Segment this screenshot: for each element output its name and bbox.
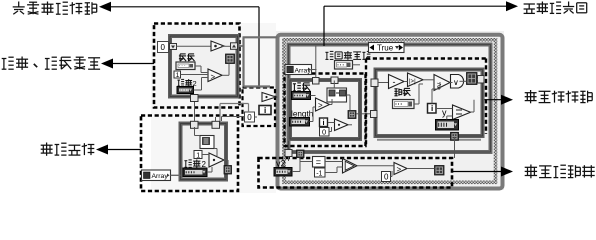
svg-text:0: 0 (247, 113, 252, 122)
svg-text:|>|: |>| (409, 79, 416, 85)
svg-text:1: 1 (176, 72, 180, 79)
svg-text:True: True (377, 44, 394, 53)
svg-text:=: = (316, 157, 321, 167)
svg-text:1: 1 (196, 152, 200, 159)
svg-text:Array: Array (152, 173, 169, 180)
svg-text:i: i (323, 118, 325, 127)
svg-text:0: 0 (322, 128, 326, 137)
svg-text:-: - (393, 77, 396, 87)
svg-text:-1: -1 (316, 170, 322, 177)
svg-text:>: > (397, 165, 402, 174)
svg-text:i: i (264, 106, 266, 115)
svg-text:>: > (318, 101, 323, 110)
svg-text:i: i (431, 104, 433, 113)
svg-text:>: > (211, 73, 216, 82)
svg-text:∨: ∨ (453, 78, 459, 87)
svg-text:0: 0 (161, 43, 166, 52)
svg-text:0: 0 (384, 173, 389, 182)
